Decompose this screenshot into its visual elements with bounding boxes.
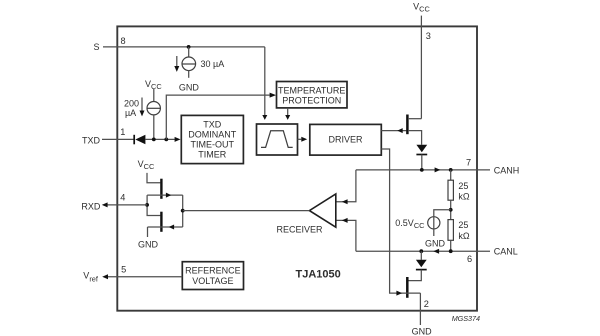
arrowhead RXD output (points left) xyxy=(102,202,108,207)
svg-text:DOMINANT: DOMINANT xyxy=(188,130,236,140)
wire Q2 source to GND pin 2 xyxy=(419,293,421,325)
svg-text:kΩ: kΩ xyxy=(458,231,470,241)
svg-text:TIME-OUT: TIME-OUT xyxy=(191,140,235,150)
wire vsource to resistor midpoint xyxy=(434,210,451,236)
wire VCC to I2 xyxy=(153,89,155,102)
svg-text:TXD: TXD xyxy=(203,120,222,130)
block TXD dominant time-out timer xyxy=(181,115,243,163)
arrow current direction I2 xyxy=(141,98,143,111)
arrowhead Vref output (points left) xyxy=(102,274,108,279)
wire D3 to Q2 drain xyxy=(408,270,421,281)
wire CANH rail xyxy=(356,169,490,171)
junction dot RXD xyxy=(145,203,149,207)
svg-text:RXD: RXD xyxy=(81,202,101,212)
diode D1 (TXD) xyxy=(133,135,135,145)
svg-text:GND: GND xyxy=(179,83,200,93)
transistor Q2 low-side channel bar xyxy=(406,277,409,298)
svg-text:VOLTAGE: VOLTAGE xyxy=(192,276,233,286)
svg-text:6: 6 xyxy=(467,254,472,264)
wire VCC pin 3 vertical xyxy=(420,16,422,119)
current source I1 30uA xyxy=(182,57,196,71)
op-amp U1 receiver comparator xyxy=(309,194,335,227)
block slope filter xyxy=(257,124,298,155)
wire VCC to Q3 xyxy=(147,173,160,183)
wire Vref pin line xyxy=(104,276,182,278)
svg-text:7: 7 xyxy=(466,157,471,167)
outer IC boundary box xyxy=(117,26,477,310)
wire TXD to timer xyxy=(145,138,174,140)
svg-text:kΩ: kΩ xyxy=(458,192,470,202)
wire filter to driver xyxy=(298,138,302,140)
transistor Q1 high-side channel bar xyxy=(406,115,409,135)
diode D3 (CANL) xyxy=(420,251,422,260)
arrow current direction I1 xyxy=(176,56,178,66)
wire CANH tap to receiver plus input xyxy=(336,170,356,202)
wire Q4 to GND xyxy=(147,227,149,237)
svg-text:TXD: TXD xyxy=(82,136,101,146)
svg-text:PROTECTION: PROTECTION xyxy=(282,95,341,105)
trapezoid waveform symbol xyxy=(261,131,293,148)
junction dot I2/TXD xyxy=(152,138,156,142)
transistor Q3 channel bar xyxy=(160,179,162,199)
voltage source 0.5 VCC xyxy=(428,217,440,229)
block reference voltage xyxy=(182,262,243,290)
svg-text:TIMER: TIMER xyxy=(198,150,226,160)
junction dot R1/R2 xyxy=(449,208,453,212)
wire S down to filter xyxy=(264,47,266,115)
wire gates common vertical xyxy=(182,195,184,227)
wire S line xyxy=(103,46,265,48)
wire TXD node up to temperature protection xyxy=(166,95,269,139)
wire Q3 gate line xyxy=(147,194,183,196)
svg-text:3: 3 xyxy=(426,31,431,41)
svg-text:8: 8 xyxy=(121,36,126,46)
wire Q1 drain to VCC line xyxy=(408,118,421,120)
svg-text:GND: GND xyxy=(412,326,433,336)
block driver xyxy=(310,124,382,155)
arrowhead into filter (from temp prot) xyxy=(285,115,290,120)
block temperature protection xyxy=(277,82,348,108)
arrowhead into timer xyxy=(175,137,181,142)
wire I2 to TXD node xyxy=(153,114,155,139)
wire temperature protection to filter xyxy=(287,108,289,115)
svg-text:DRIVER: DRIVER xyxy=(328,135,363,145)
svg-text:5: 5 xyxy=(121,264,126,274)
transistor Q4 channel bar xyxy=(160,212,162,232)
svg-text:2: 2 xyxy=(424,299,429,309)
arrowhead n-channel (points right) xyxy=(396,291,402,296)
junction dot D2/CANH xyxy=(420,168,424,172)
junction dot R2/CANL xyxy=(449,249,453,253)
junction dot S/30uA xyxy=(187,45,191,49)
arrowhead into filter (from S) xyxy=(262,115,267,120)
wire RXD pin line xyxy=(104,204,147,206)
wire D2 to CANH xyxy=(421,155,423,170)
wire CANL rail xyxy=(356,250,490,252)
svg-text:S: S xyxy=(94,42,100,52)
wire Q4 gate line xyxy=(148,226,183,228)
arrowhead Q4 (points left) xyxy=(169,225,174,230)
current source I2 200uA xyxy=(147,102,160,115)
arrowhead into temperature protection xyxy=(270,93,277,98)
wire TXD pin line xyxy=(102,138,134,140)
svg-text:30 µA: 30 µA xyxy=(201,59,225,69)
wire CANL tap to receiver minus input xyxy=(336,220,356,251)
junction dot D3/CANL xyxy=(419,249,423,253)
junction dot R1/CANH xyxy=(449,168,453,172)
arrowhead receiver lower input xyxy=(342,218,348,223)
svg-text:MGS374: MGS374 xyxy=(452,314,480,323)
arrowhead CANL direction xyxy=(433,249,439,254)
junction dot TXD/tempsense xyxy=(164,138,168,142)
svg-text:GND: GND xyxy=(425,239,446,249)
diode D2 (CANH) xyxy=(416,145,427,152)
wire receiver output to RXD stage xyxy=(183,210,310,212)
junction dot receiver output xyxy=(181,209,185,213)
svg-text:25: 25 xyxy=(458,181,468,191)
arrowhead CANH direction xyxy=(435,167,441,172)
arrowhead Q3 (points right) xyxy=(166,193,171,198)
svg-text:REFERENCE: REFERENCE xyxy=(185,266,241,276)
svg-text:4: 4 xyxy=(120,193,125,203)
wire 30uA tap xyxy=(188,47,190,57)
resistor R2 25k xyxy=(448,220,453,241)
wire Q1 source down xyxy=(408,131,422,145)
svg-text:GND: GND xyxy=(138,240,159,250)
svg-text:CANL: CANL xyxy=(494,247,518,257)
svg-text:TJA1050: TJA1050 xyxy=(296,268,341,280)
svg-text:µA: µA xyxy=(125,108,136,118)
svg-text:25: 25 xyxy=(458,220,468,230)
wire I1 to GND xyxy=(188,70,190,77)
arrowhead receiver upper input xyxy=(342,199,348,204)
wire RXD node vertical xyxy=(147,195,160,215)
svg-text:RECEIVER: RECEIVER xyxy=(276,224,323,234)
wire driver to high-side gate xyxy=(381,130,406,132)
arrowhead into driver xyxy=(301,137,307,142)
svg-text:CANH: CANH xyxy=(494,165,520,175)
arrowhead p-channel (points left) xyxy=(397,128,402,133)
svg-text:1: 1 xyxy=(120,127,125,137)
svg-text:TEMPERATURE: TEMPERATURE xyxy=(278,85,345,95)
resistor R1 25k xyxy=(450,170,452,180)
wire driver to low-side gate xyxy=(381,149,420,293)
